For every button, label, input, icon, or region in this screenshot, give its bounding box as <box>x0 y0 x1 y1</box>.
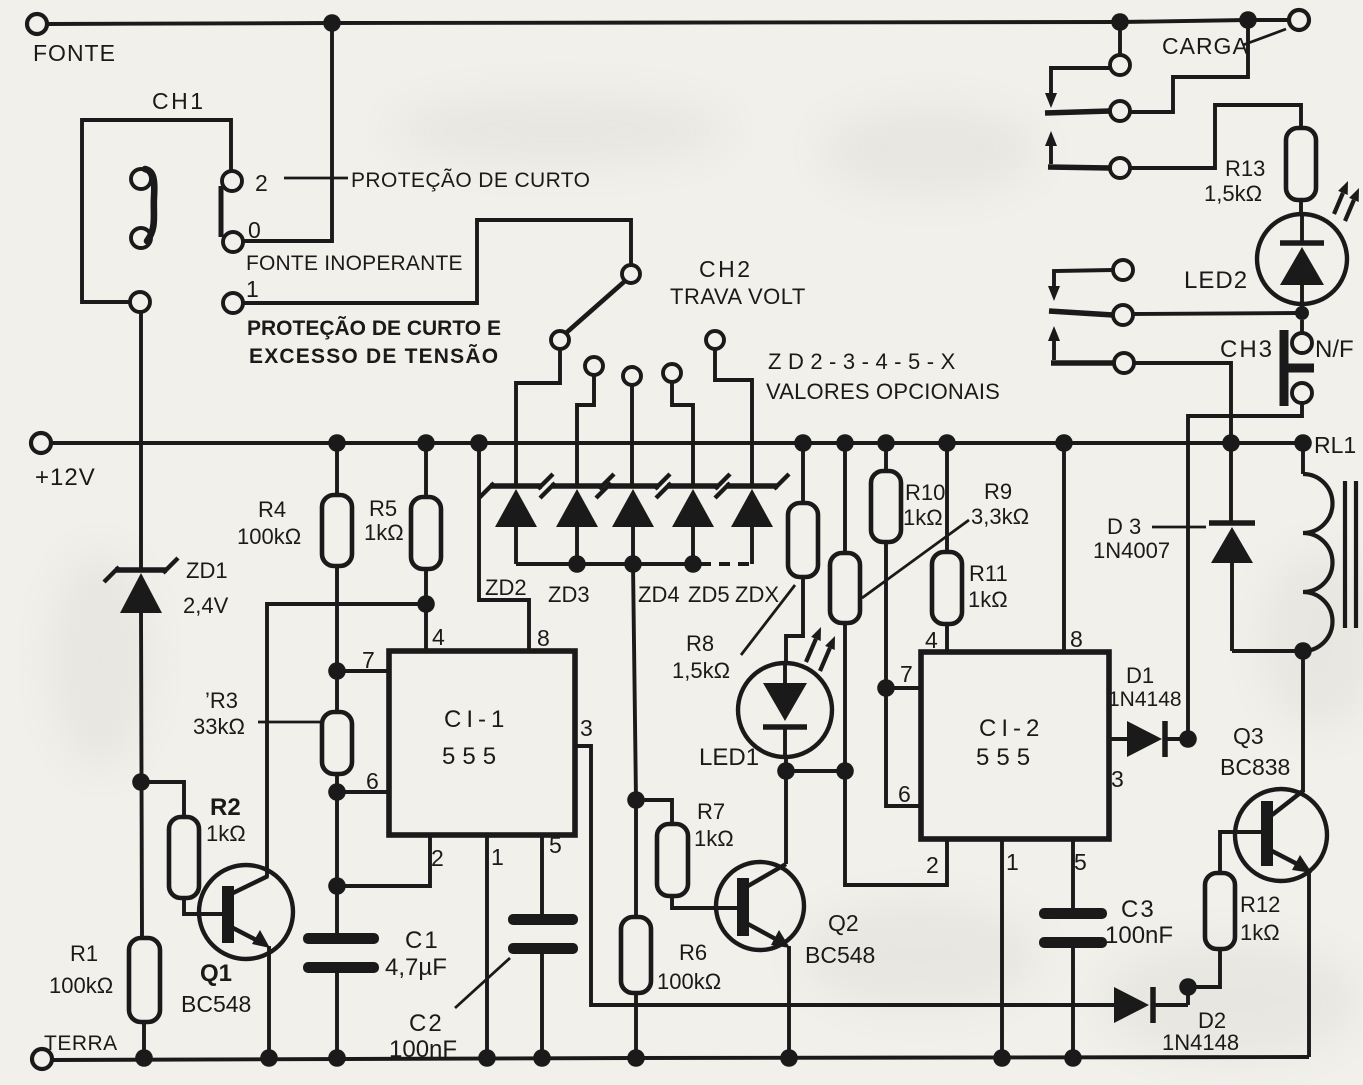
wire R1 to ground <box>142 1022 146 1058</box>
wire CH1 pole down through +12V rail to ZD1 <box>139 312 143 568</box>
node R9 bottom junction <box>836 762 854 780</box>
svg-text:FONTE INOPERANTE: FONTE INOPERANTE <box>246 252 463 275</box>
transistor Q3 BC838 <box>1220 723 1327 881</box>
node ZD4 selector <box>623 367 641 484</box>
svg-text:CI-2: CI-2 <box>979 715 1044 742</box>
svg-text:555: 555 <box>976 744 1037 771</box>
label PROTECAO DE CURTO with pointer <box>284 168 590 192</box>
wire R10 to pin7 node CI-2 <box>884 542 888 688</box>
wire lower middle contact to LED2 cathode node <box>1133 313 1298 314</box>
svg-text:ZD3: ZD3 <box>548 582 590 607</box>
diode D3 1N4007 <box>1093 443 1255 651</box>
svg-text:RL1: RL1 <box>1314 432 1356 458</box>
resistor R8 <box>672 443 818 683</box>
node rail RL1 coil <box>1294 434 1312 452</box>
svg-text:ZD5: ZD5 <box>688 582 730 607</box>
zener ZD5 <box>656 474 730 607</box>
node rail R11 <box>938 434 956 452</box>
terminal +12V <box>31 433 96 491</box>
diode D1 1N4148 <box>1108 663 1182 757</box>
wire R4 to pin7 node <box>335 566 339 671</box>
resistor R11 <box>932 443 1008 624</box>
wire R12 to D2 node <box>1188 949 1220 987</box>
wire D1 to node <box>1167 737 1188 741</box>
node rail R5 <box>417 434 435 452</box>
svg-text:4: 4 <box>432 624 445 650</box>
wire pin 3 CI-2 to D1 <box>1109 737 1127 741</box>
svg-text:R2: R2 <box>210 794 241 821</box>
svg-text:FONTE: FONTE <box>33 40 116 66</box>
svg-text:CH3: CH3 <box>1220 336 1274 363</box>
capacitor C3 <box>1039 896 1173 949</box>
svg-text:R12: R12 <box>1240 892 1280 917</box>
node LED1/R9/pin2 junction <box>777 762 795 780</box>
svg-text:ZD2-3-4-5-X: ZD2-3-4-5-X <box>768 349 962 374</box>
resistor R3 <box>193 671 352 774</box>
wire Q2 emitter to ground <box>787 946 791 1058</box>
node bus ZD4 <box>624 555 642 573</box>
svg-text:1: 1 <box>246 276 259 302</box>
svg-text:C1: C1 <box>405 927 440 954</box>
svg-text:100kΩ: 100kΩ <box>237 524 301 549</box>
svg-text:’R3: ’R3 <box>205 688 238 713</box>
svg-text:CI-1: CI-1 <box>444 706 509 733</box>
node bus ZD3 <box>568 555 586 573</box>
wire rail to pin 8 CI-1 <box>479 443 529 651</box>
wire Q3 base to R12 <box>1220 832 1261 873</box>
svg-text:R6: R6 <box>679 940 707 965</box>
wire ground rail <box>52 1057 1309 1060</box>
node CARGA junction <box>1239 11 1257 29</box>
node ground C2 <box>533 1049 551 1067</box>
svg-text:1kΩ: 1kΩ <box>903 505 943 530</box>
node rail D3 <box>1222 434 1240 452</box>
svg-text:4,7µF: 4,7µF <box>385 954 447 981</box>
LED LED1 <box>699 627 835 771</box>
svg-text:2,4V: 2,4V <box>183 593 229 618</box>
wire junction to R9 column <box>786 769 845 773</box>
node coil bottom junction <box>1294 642 1312 660</box>
node pin4 junction <box>417 595 435 613</box>
svg-text:ZD1: ZD1 <box>186 558 228 583</box>
wire rail to pin 8 CI-2 <box>1062 443 1066 652</box>
svg-text:6: 6 <box>898 781 911 807</box>
svg-text:R5: R5 <box>369 496 397 521</box>
node ground pin1 CI-1 <box>478 1049 496 1067</box>
node R6/R7 junction <box>627 791 645 809</box>
svg-text:+12V: +12V <box>35 464 96 491</box>
wire zener bus <box>516 562 700 566</box>
svg-text:ZD2: ZD2 <box>485 575 527 600</box>
svg-text:C3: C3 <box>1121 896 1156 923</box>
wire junction to R7 <box>636 800 672 824</box>
wire pins 7-6 link CI-2 <box>886 688 921 806</box>
svg-text:N/F: N/F <box>1315 336 1354 363</box>
node LED2/CH3 junction <box>1295 306 1309 320</box>
zener ZD3 <box>540 474 614 607</box>
wire C3 to ground <box>1071 948 1075 1058</box>
svg-text:2: 2 <box>255 170 268 196</box>
zener ZD1 <box>104 558 229 618</box>
capacitor C1 <box>303 927 447 981</box>
wire Q2 collector to LED1 <box>784 771 788 864</box>
wire contact 3 lower to rail <box>1134 363 1231 443</box>
node D1 cathode junction <box>1179 730 1197 748</box>
svg-text:1: 1 <box>1006 849 1019 875</box>
node rail R4 <box>328 434 346 452</box>
svg-text:8: 8 <box>537 625 550 651</box>
svg-text:R10: R10 <box>905 480 945 505</box>
svg-text:D1: D1 <box>1126 663 1154 688</box>
svg-text:7: 7 <box>362 647 375 673</box>
wire pin 7 CI-1 <box>337 669 389 673</box>
node rail pin8 feed <box>470 434 488 452</box>
svg-text:1kΩ: 1kΩ <box>968 587 1008 612</box>
wire coil node to Q3 collector <box>1301 651 1305 791</box>
svg-text:1kΩ: 1kΩ <box>1240 920 1280 945</box>
wire pin 3 CI-1 long output line <box>575 746 1114 1005</box>
svg-text:555: 555 <box>442 743 503 770</box>
svg-text:R4: R4 <box>258 497 286 522</box>
node ground pin1 CI-2 <box>993 1049 1011 1067</box>
node ZD3 selector <box>577 357 603 484</box>
svg-text:ZD4: ZD4 <box>638 582 680 607</box>
svg-text:Q2: Q2 <box>828 910 859 936</box>
relay contact set 1 (top) <box>1045 55 1130 178</box>
op-amp CI-2 555 <box>898 626 1124 878</box>
wire R2 to Q1 base <box>184 898 224 914</box>
diode D2 1N4148 <box>1114 987 1239 1055</box>
zener ZD4 <box>596 474 680 607</box>
svg-text:3,3kΩ: 3,3kΩ <box>971 504 1029 529</box>
wire pin 1 CI-2 to ground <box>1000 839 1004 1058</box>
resistor R9 <box>830 443 1029 623</box>
terminal FONTE <box>27 14 116 66</box>
node top rail to relay contact <box>1111 13 1129 31</box>
wire top supply rail <box>47 20 1248 24</box>
svg-text:5: 5 <box>549 832 562 858</box>
svg-text:33kΩ: 33kΩ <box>193 714 245 739</box>
svg-text:2: 2 <box>431 845 444 871</box>
svg-text:TRAVA VOLT: TRAVA VOLT <box>670 284 806 309</box>
svg-text:1,5kΩ: 1,5kΩ <box>1204 181 1262 206</box>
op-amp CI-1 555 <box>362 624 593 871</box>
svg-text:1: 1 <box>491 844 504 870</box>
wire +12V rail <box>51 441 1304 445</box>
wire pin 1 CI-1 to ground <box>485 835 489 1058</box>
resistor R12 <box>1205 873 1280 949</box>
wire C2 to ground <box>540 954 544 1058</box>
wire Q1 emitter to ground <box>267 946 271 1058</box>
svg-text:100kΩ: 100kΩ <box>49 973 113 998</box>
svg-text:R7: R7 <box>697 799 725 824</box>
node ZD5 selector <box>663 364 693 484</box>
svg-text:1N4148: 1N4148 <box>1108 688 1182 711</box>
wire junction down to D2 line <box>1186 987 1190 1005</box>
wire pin 7 CI-2 <box>886 686 921 690</box>
svg-text:VALORES OPCIONAIS: VALORES OPCIONAIS <box>766 379 1000 404</box>
node ZD1/R2 junction <box>132 773 150 791</box>
node ground C1 <box>328 1049 346 1067</box>
svg-text:EXCESSO DE TENSÃO: EXCESSO DE TENSÃO <box>249 345 499 368</box>
terminal CARGA <box>1162 10 1309 59</box>
node ground Q2 <box>780 1049 798 1067</box>
svg-text:1N4148: 1N4148 <box>1162 1030 1239 1055</box>
node pin7 junction CI-2 <box>877 679 895 697</box>
wire R3 to pin6 node <box>335 774 339 792</box>
svg-text:LED2: LED2 <box>1184 267 1248 294</box>
svg-text:5: 5 <box>1074 849 1087 875</box>
svg-text:1N4007: 1N4007 <box>1093 538 1170 563</box>
zener ZDX <box>715 474 789 607</box>
wire R5 to pin4 <box>424 569 428 651</box>
zener ZD2 <box>479 474 553 600</box>
svg-text:Q3: Q3 <box>1233 723 1264 749</box>
wire R8 to LED1 <box>786 577 803 664</box>
wire CH2 contact to ZD2 <box>516 348 560 484</box>
node junction top-left <box>323 14 341 32</box>
svg-text:100nF: 100nF <box>1105 922 1173 949</box>
wire R6 to ground <box>634 993 638 1058</box>
wire LED1 to collector node <box>784 757 788 771</box>
wire rail to contact a1 <box>1118 22 1122 55</box>
resistor R7 <box>657 799 734 896</box>
wire pin 6 CI-1 <box>337 790 389 794</box>
resistor R10 <box>871 443 945 542</box>
node ground C3 <box>1064 1049 1082 1067</box>
node ground R6 <box>627 1049 645 1067</box>
wire from top rail down to CH1 contact 0 <box>244 23 332 241</box>
wire Q3 emitter to ground <box>1307 872 1311 1057</box>
node R12/D1/D2 junction <box>1179 978 1197 996</box>
svg-text:R11: R11 <box>969 561 1008 586</box>
svg-text:BC838: BC838 <box>1220 754 1290 780</box>
wire middle contact to CARGA <box>1130 28 1248 112</box>
relay contact set 2 (lower) <box>1048 260 1134 373</box>
svg-text:3: 3 <box>1111 766 1124 792</box>
switch CH1 <box>82 88 268 313</box>
wire CH3 down and left to D1 column <box>1188 403 1302 739</box>
svg-text:8: 8 <box>1070 626 1083 652</box>
svg-text:100nF: 100nF <box>389 1036 457 1063</box>
svg-text:0: 0 <box>248 217 261 243</box>
node pin7 junction <box>328 662 346 680</box>
node rail pin8 CI-2 <box>1055 434 1073 452</box>
svg-text:1,5kΩ: 1,5kΩ <box>672 658 730 683</box>
svg-text:4: 4 <box>925 627 938 653</box>
svg-text:TERRA: TERRA <box>44 1032 118 1055</box>
node rail R9 <box>836 434 854 452</box>
wire zener bus dashed optional <box>700 562 752 566</box>
wire pin6 node down to C1 <box>335 792 339 938</box>
resistor R2 <box>169 794 246 898</box>
wire pin 5 CI-1 to C2 <box>540 835 544 915</box>
wire bus down to R6/R7 junction <box>633 564 636 800</box>
svg-text:Q1: Q1 <box>200 960 232 987</box>
svg-text:R8: R8 <box>686 631 714 656</box>
node ground Q1 <box>260 1049 278 1067</box>
svg-text:2: 2 <box>926 852 939 878</box>
svg-text:CH1: CH1 <box>152 88 206 114</box>
svg-text:D 3: D 3 <box>1107 514 1141 539</box>
svg-text:BC548: BC548 <box>181 991 251 1017</box>
svg-text:PROTEÇÃO DE CURTO E: PROTEÇÃO DE CURTO E <box>247 317 501 340</box>
node rail R10 <box>877 434 895 452</box>
svg-text:1kΩ: 1kΩ <box>694 826 734 851</box>
wire Q1 collector up to pin4 node <box>267 604 426 877</box>
switch CH3 N/F <box>1220 320 1354 406</box>
wire CH1 contact 1 to CH2 pivot <box>243 220 631 303</box>
wire pin 2 CI-1 <box>337 835 430 886</box>
wire junction to R2 <box>141 782 184 817</box>
wire D3 anode to coil bottom <box>1232 649 1303 653</box>
svg-text:6: 6 <box>366 768 379 794</box>
svg-text:PROTEÇÃO DE CURTO: PROTEÇÃO DE CURTO <box>351 168 590 192</box>
svg-text:LED1: LED1 <box>699 744 759 771</box>
wire pin 5 CI-2 to C3 <box>1071 839 1075 909</box>
resistor R13 <box>1204 128 1316 206</box>
node bus ZD5 <box>684 555 702 573</box>
svg-text:1kΩ: 1kΩ <box>206 821 246 846</box>
svg-text:ZDX: ZDX <box>735 582 779 607</box>
wire R7 to Q2 base <box>672 896 737 908</box>
wire R11 to pin 4 CI-2 <box>945 624 949 652</box>
wire R13 to LED2 <box>1299 200 1303 215</box>
svg-text:100kΩ: 100kΩ <box>657 969 721 994</box>
svg-text:CARGA: CARGA <box>1162 33 1249 59</box>
resistor R1 <box>49 938 160 1022</box>
svg-text:BC548: BC548 <box>805 942 875 968</box>
transistor Q2 BC548 <box>716 862 875 968</box>
svg-text:C2: C2 <box>409 1010 444 1037</box>
resistor R4 <box>237 443 352 566</box>
node ground R1 <box>135 1049 153 1067</box>
wire junction to pin 2 CI-2 <box>845 771 947 885</box>
wire contact 3 to R13 <box>1130 105 1301 168</box>
wire R9 to junction <box>843 623 847 771</box>
node ZDX selector <box>706 331 752 484</box>
resistor R5 <box>364 443 441 569</box>
switch CH2 <box>551 256 806 349</box>
node pin2 junction <box>328 877 346 895</box>
svg-text:R9: R9 <box>984 479 1012 504</box>
capacitor C2 <box>389 914 578 1063</box>
node pin6 junction <box>328 783 346 801</box>
svg-text:3: 3 <box>580 715 593 741</box>
transistor Q1 BC548 <box>181 865 293 1017</box>
svg-text:CH2: CH2 <box>699 256 753 282</box>
resistor R6 <box>621 800 721 994</box>
relay coil RL1 <box>1303 432 1356 651</box>
svg-text:1kΩ: 1kΩ <box>364 520 404 545</box>
svg-text:R13: R13 <box>1225 156 1265 181</box>
node rail R8 <box>794 434 812 452</box>
svg-text:7: 7 <box>900 661 913 687</box>
wire ZD1 anode down <box>141 613 142 938</box>
terminal TERRA <box>32 1032 118 1069</box>
svg-text:R1: R1 <box>70 941 98 966</box>
wire C1 to ground <box>335 973 339 1058</box>
LED LED2 <box>1184 181 1359 313</box>
